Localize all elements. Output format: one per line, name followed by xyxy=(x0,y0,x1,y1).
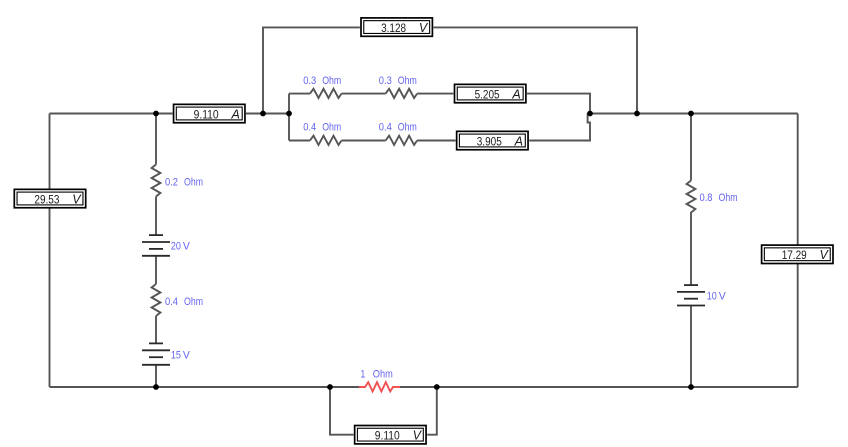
voltmeter V2 reading 29.53 V (left column) xyxy=(14,189,85,207)
svg-text:Ohm: Ohm xyxy=(719,192,738,204)
node G junction (middle branch bottom) xyxy=(153,384,159,390)
svg-text:Ohm: Ohm xyxy=(398,121,417,133)
node B junction (right of ammeter A1) xyxy=(260,111,266,117)
wire right branch: resistor R8 to battery B3 xyxy=(690,212,692,285)
wire bottom row left: corner to red resistor R7 xyxy=(50,386,360,388)
svg-text:0.3: 0.3 xyxy=(379,75,392,87)
resistor R1 0.3 Ohm (parallel top branch, left) xyxy=(310,89,342,98)
value label 1 Ohm for R7 xyxy=(360,369,392,381)
battery B3 10 V plate 3 (short) xyxy=(684,298,698,300)
value label 15 V for battery B2 xyxy=(171,349,191,361)
svg-text:10: 10 xyxy=(707,291,717,303)
wire middle branch: node A down to resistor R5 xyxy=(155,114,157,165)
node A junction (left of ammeter A1) xyxy=(153,111,159,117)
node E junction (top loop return) xyxy=(634,111,640,117)
svg-text:9.110: 9.110 xyxy=(375,431,400,443)
battery B3 10 V plate 4 (long) xyxy=(677,305,705,307)
svg-text:A: A xyxy=(230,107,239,121)
wire middle branch: battery B2 down to bottom node G xyxy=(155,365,157,387)
wire main row left: corner to ammeter A1 xyxy=(50,113,173,115)
svg-text:Ohm: Ohm xyxy=(184,177,203,189)
battery B1 20 V plate 1 (short) xyxy=(149,234,163,236)
svg-text:0.4: 0.4 xyxy=(165,296,178,308)
wire main row right: node D to right edge xyxy=(590,113,798,115)
wire parallel top branch to ammeter A2 xyxy=(417,93,453,95)
wire right branch: battery B3 down to bottom node J xyxy=(690,306,692,388)
battery B1 20 V plate 3 (short) xyxy=(149,248,163,250)
wire parallel bottom branch: ammeter A3 to jogged right bracket into node D xyxy=(529,114,590,141)
wire top-right from voltmeter V1 across and down to node E xyxy=(434,27,638,113)
value label 0.2 Ohm for R5 xyxy=(165,177,203,189)
resistor R7 1 Ohm (bottom row, red) xyxy=(359,382,400,391)
svg-text:9.110: 9.110 xyxy=(194,109,219,121)
wire middle branch: resistor R6 to battery B2 xyxy=(155,316,157,343)
wire parallel bottom branch to ammeter A3 xyxy=(417,140,456,142)
svg-text:A: A xyxy=(514,134,523,148)
voltmeter V3 reading 17.29 V (right column) xyxy=(762,245,833,263)
voltmeter V1 reading 3.128 V (top) xyxy=(361,18,432,36)
value label 0.4 Ohm for R3 xyxy=(303,121,341,133)
svg-text:0.2: 0.2 xyxy=(165,177,178,189)
svg-text:15: 15 xyxy=(171,349,181,361)
resistor R3 0.4 Ohm (parallel bottom branch, left) xyxy=(310,136,342,145)
ammeter A1 reading 9.110 A (main row) xyxy=(174,104,245,122)
svg-text:0.4: 0.4 xyxy=(379,121,392,133)
value label 0.3 Ohm for R1 xyxy=(303,75,341,87)
wire right branch: node F down to resistor R8 xyxy=(690,114,692,181)
node F junction (right branch top) xyxy=(688,111,694,117)
svg-text:3.128: 3.128 xyxy=(381,23,406,35)
battery B2 15 V plate 3 (short) xyxy=(149,356,163,358)
resistor R2 0.3 Ohm (parallel top branch, right) xyxy=(386,89,418,98)
svg-text:Ohm: Ohm xyxy=(322,75,341,87)
svg-text:0.4: 0.4 xyxy=(303,121,316,133)
svg-text:29.53: 29.53 xyxy=(34,194,59,206)
svg-text:Ohm: Ohm xyxy=(322,121,341,133)
wire parallel bottom branch between R3 and R4 xyxy=(342,140,386,142)
wire left column upper: corner down to voltmeter V2 xyxy=(49,114,51,189)
value label 0.8 Ohm for R8 xyxy=(700,192,738,204)
svg-text:Ohm: Ohm xyxy=(184,296,203,308)
svg-text:5.205: 5.205 xyxy=(475,89,500,101)
ammeter A3 reading 3.905 A (parallel bottom branch) xyxy=(457,131,528,149)
battery B1 20 V plate 2 (long) xyxy=(142,241,170,243)
value label 0.4 Ohm for R4 xyxy=(379,121,417,133)
wire right column lower: voltmeter V3 down to bottom-right corner xyxy=(797,264,799,387)
wire voltmeter V4 tap left: node H down and right to meter xyxy=(330,387,354,435)
resistor R5 0.2 Ohm (middle branch, vertical) xyxy=(152,165,161,197)
svg-text:V: V xyxy=(183,241,191,253)
resistor R4 0.4 Ohm (parallel bottom branch, right) xyxy=(386,136,418,145)
wire parallel bottom branch lead-in xyxy=(289,140,310,142)
node I junction (right of resistor R7) xyxy=(434,384,440,390)
svg-text:17.29: 17.29 xyxy=(782,250,807,262)
svg-text:Ohm: Ohm xyxy=(398,75,417,87)
wire middle branch: battery B1 to resistor R6 xyxy=(155,256,157,284)
wire top-left riser from node B up and across to voltmeter V1 xyxy=(263,27,360,113)
value label 0.4 Ohm for R6 xyxy=(165,296,203,308)
wire parallel top branch between R1 and R2 xyxy=(342,93,386,95)
svg-text:Ohm: Ohm xyxy=(373,369,393,381)
svg-text:V: V xyxy=(719,291,727,303)
resistor R8 0.8 Ohm (right branch, vertical) xyxy=(687,181,696,213)
wire parallel top branch: ammeter A2 to right bracket xyxy=(527,94,590,114)
svg-text:0.8: 0.8 xyxy=(700,192,713,204)
svg-text:V: V xyxy=(183,349,191,361)
node H junction (left of resistor R7) xyxy=(327,384,333,390)
wire left column lower: voltmeter V2 down to bottom-left corner xyxy=(49,208,51,387)
battery B2 15 V plate 2 (long) xyxy=(142,349,170,351)
svg-text:A: A xyxy=(511,87,520,101)
svg-text:1: 1 xyxy=(360,369,365,381)
ammeter A2 reading 5.205 A (parallel top branch) xyxy=(455,84,526,102)
wire right column upper: node F down to voltmeter V3 xyxy=(797,114,799,245)
wire voltmeter V4 tap right: meter to node I riser xyxy=(427,387,437,435)
svg-text:0.3: 0.3 xyxy=(303,75,316,87)
node D junction (parallel merge right) xyxy=(587,111,593,117)
battery B3 10 V plate 1 (short) xyxy=(684,284,698,286)
value label 10 V for battery B3 xyxy=(707,291,727,303)
battery B2 15 V plate 1 (short) xyxy=(149,342,163,344)
wire parallel-section left bracket at node C xyxy=(288,94,290,141)
svg-text:20: 20 xyxy=(171,241,181,253)
battery B1 20 V plate 4 (long) xyxy=(142,255,170,257)
wire bottom row right: red resistor R7 to bottom-right corner xyxy=(400,386,798,388)
battery B2 15 V plate 4 (long) xyxy=(142,364,170,366)
svg-text:3.905: 3.905 xyxy=(477,136,502,148)
voltmeter V4 reading 9.110 V (across R7, bottom) xyxy=(355,426,426,444)
node J junction (right branch bottom) xyxy=(688,384,694,390)
resistor R6 0.4 Ohm (middle branch, vertical) xyxy=(152,284,161,316)
value label 0.3 Ohm for R2 xyxy=(379,75,417,87)
wire middle branch: resistor R5 to battery B1 xyxy=(155,197,157,236)
node C junction (parallel split left) xyxy=(286,111,292,117)
wire main row middle: ammeter A1 to node C xyxy=(246,113,289,115)
value label 20 V for battery B1 xyxy=(171,241,191,253)
battery B3 10 V plate 2 (long) xyxy=(677,291,705,293)
wire parallel top branch lead-in xyxy=(289,93,310,95)
